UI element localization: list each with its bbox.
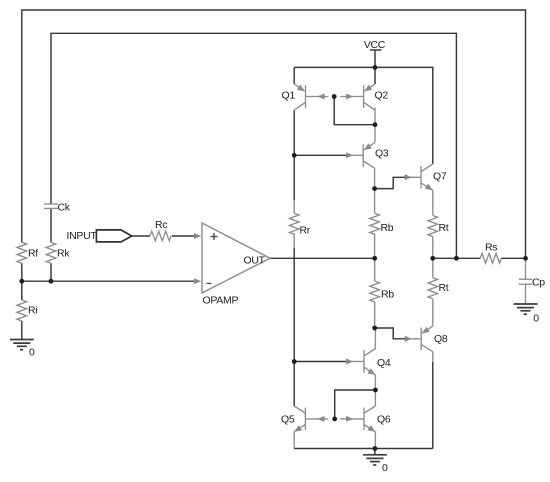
wire Rc to op-amp plus	[172, 235, 197, 237]
wire Q2 emitter stub from VCC node	[374, 67, 376, 84]
wire VCC drop	[374, 50, 376, 68]
resistor Rs	[480, 242, 501, 264]
svg-text:0: 0	[382, 462, 388, 474]
junction Q4 emitter / Q6 collector	[373, 388, 378, 393]
node VCC power symbol	[364, 39, 386, 51]
junction Q4 base tap / Q5 collector	[292, 359, 297, 364]
resistor Ri	[17, 300, 37, 321]
ground 0 under Ri	[10, 340, 35, 359]
resistor Rt upper	[428, 216, 449, 237]
svg-text:OPAMP: OPAMP	[203, 295, 239, 307]
svg-text:0: 0	[533, 313, 539, 325]
junction Rb lower / Q4 collector / Q8 base	[372, 326, 377, 331]
junction left rail under Rk	[49, 279, 54, 284]
svg-text:Ri: Ri	[28, 305, 37, 317]
wire junction to Ri top	[21, 281, 23, 300]
op-amp U1 OPAMP	[202, 223, 270, 307]
wire Rr bottom long run crossing OUT to Q4 base tap	[293, 234, 295, 249]
wire node to Rs left	[456, 257, 480, 259]
wire Rf bottom to inverting-input rail	[21, 263, 23, 281]
wire Q1 emitter stub from top rail	[293, 67, 295, 84]
junction output node Rs Cp	[523, 256, 528, 261]
transistor Q2 (PNP, right of pair, diode-connected)	[340, 84, 388, 110]
junction Q5 Q6 base midpoint	[332, 417, 337, 422]
wire Rk bottom to inverting-input rail	[50, 263, 52, 281]
wire Q3 collector to Rb top junction	[374, 168, 376, 188]
wire Cp bottom to ground	[525, 284, 527, 303]
wire Rs right to output node	[501, 257, 525, 259]
svg-text:Cp: Cp	[532, 277, 545, 289]
svg-text:Rs: Rs	[485, 242, 497, 254]
wire Q2 base-collector tie	[334, 97, 375, 125]
junction left rail under Rf	[19, 279, 24, 284]
INPUT port connector	[67, 230, 132, 242]
ground 0 under Cp	[514, 304, 540, 325]
resistor Rr	[289, 213, 310, 236]
resistor Rc	[150, 219, 171, 241]
svg-text:Ck: Ck	[58, 202, 71, 214]
pin arrow into op-amp plus input	[194, 233, 201, 239]
wire output node to Cp top	[525, 258, 527, 279]
resistor Rb upper	[370, 213, 394, 234]
transistor Q8 (PNP)	[405, 326, 448, 352]
resistor Rf	[17, 242, 38, 263]
wire Q4 emitter to Q6 collector node	[374, 375, 376, 406]
wire Q4 collector stub	[374, 328, 376, 345]
svg-text:Q4: Q4	[377, 357, 391, 369]
wire Rr top from Q3 base tap	[293, 155, 295, 200]
svg-text:Rt: Rt	[439, 222, 449, 234]
pin arrow into op-amp minus input	[194, 278, 201, 284]
transistor Q4 (NPN)	[346, 345, 391, 377]
wire Q4 base from left rail	[294, 361, 347, 363]
transistor Q6 (NPN, right of pair, diode-connected)	[340, 406, 391, 434]
wire Rt top to Rt junction	[432, 237, 434, 259]
junction Rt midpoint	[430, 256, 435, 261]
junction Q2 collector tie	[373, 122, 378, 127]
wire OUT junction to Rb bottom resistor	[374, 258, 376, 281]
wire lower Rt to Q8 emitter	[432, 299, 434, 326]
wire Q3 base from left rail	[294, 154, 347, 156]
resistor Rb lower	[370, 281, 394, 302]
svg-text:OUT: OUT	[244, 255, 266, 267]
wire Rt junction to lower Rt resistor	[432, 258, 434, 278]
junction Q3 collector / Rb / Q7 base	[372, 186, 377, 191]
wire Rb top to OUT junction	[374, 234, 376, 259]
wire Q8 base tap jog	[375, 328, 406, 339]
junction VCC on top rail	[373, 65, 378, 70]
svg-text:Rb: Rb	[381, 222, 394, 234]
wire bottom ground stub	[374, 449, 376, 455]
svg-text:Rc: Rc	[155, 219, 167, 231]
wire Q5 collector to Q4 base tap	[293, 362, 295, 407]
wire ground rail	[294, 448, 433, 450]
transistor Q5 (NPN, left of pair)	[281, 406, 328, 434]
svg-text:VCC: VCC	[364, 39, 386, 51]
svg-text:Q2: Q2	[375, 90, 389, 102]
wire Rt junction to middle loop node	[433, 257, 457, 259]
capacitor Ck	[44, 202, 71, 214]
junction Q1 Q2 base midpoint	[332, 94, 337, 99]
wire Ri bottom to ground	[21, 321, 23, 339]
ground 0 bottom rail	[363, 455, 388, 474]
svg-text:Rt: Rt	[439, 282, 449, 294]
junction OUT / Rb midpoint	[372, 256, 377, 261]
wire Ck bottom to Rk top	[50, 208, 52, 242]
svg-text:Q3: Q3	[375, 147, 389, 159]
svg-text:Rf: Rf	[28, 248, 38, 260]
svg-text:Q7: Q7	[433, 170, 447, 182]
wire top rail Q1 Q2 emitters to Q7 collector	[294, 67, 433, 164]
wire outer feedback loop Rf top to output node	[22, 10, 526, 258]
wire Q5 emitter to ground rail	[293, 432, 295, 449]
wire Q1 collector down to Q3 base tap	[293, 110, 295, 155]
transistor Q7 (NPN)	[405, 164, 447, 193]
svg-text:Rr: Rr	[300, 224, 311, 236]
wire OUT net op-amp output to Rb midpoint	[270, 257, 375, 259]
wire Q6 base-collector tie	[335, 390, 376, 419]
svg-text:0: 0	[29, 347, 35, 359]
wire Q7 emitter to Rt top	[432, 190, 434, 215]
svg-text:Q8: Q8	[434, 333, 448, 345]
svg-text:INPUT: INPUT	[67, 230, 98, 242]
capacitor Cp	[519, 277, 546, 289]
wire Q8 collector down to ground rail	[432, 352, 434, 362]
transistor Q1 (PNP, left of pair)	[282, 84, 329, 110]
wire Q2 collector to Q3 emitter node	[374, 108, 376, 125]
svg-text:Rb: Rb	[381, 288, 394, 300]
svg-text:Q5: Q5	[281, 413, 295, 425]
wire Q7 base tap jog	[375, 177, 406, 188]
resistor Rk	[46, 242, 70, 263]
junction middle loop node	[454, 256, 459, 261]
wire Q6 emitter to ground rail	[374, 432, 376, 449]
svg-text:Q6: Q6	[377, 413, 391, 425]
wire inverting input rail to op-amp minus	[22, 280, 197, 282]
svg-text:Rk: Rk	[57, 248, 70, 260]
junction ground rail	[373, 446, 378, 451]
resistor Rt lower	[428, 278, 449, 299]
junction Q3 base tap	[292, 153, 297, 158]
wire INPUT port to Rc	[132, 235, 150, 237]
transistor Q3 (PNP)	[346, 143, 389, 169]
wire middle loop Ck top to output node before Rs	[51, 33, 456, 258]
wire lower Rb to Q4 collector junction	[374, 302, 376, 328]
svg-text:Q1: Q1	[282, 90, 296, 102]
